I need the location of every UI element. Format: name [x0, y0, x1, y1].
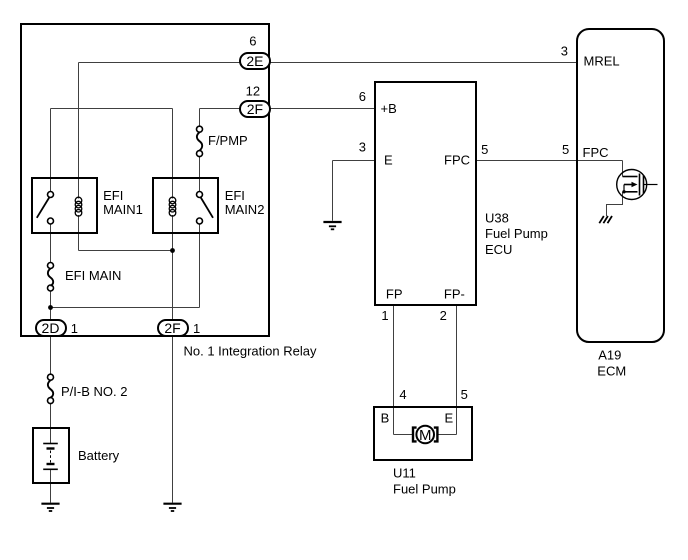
- svg-text:EFI: EFI: [225, 188, 245, 203]
- svg-text:2: 2: [440, 308, 447, 323]
- svg-text:3: 3: [561, 43, 568, 58]
- svg-text:6: 6: [359, 89, 366, 104]
- svg-text:+B: +B: [381, 101, 397, 116]
- svg-text:EFI: EFI: [103, 188, 123, 203]
- svg-text:4: 4: [399, 387, 406, 402]
- svg-text:FP-: FP-: [444, 286, 465, 301]
- svg-text:No. 1 Integration Relay: No. 1 Integration Relay: [184, 344, 317, 359]
- svg-text:B: B: [381, 410, 390, 425]
- svg-text:ECM: ECM: [597, 363, 626, 378]
- svg-text:12: 12: [246, 84, 260, 99]
- svg-text:Fuel Pump: Fuel Pump: [393, 481, 456, 496]
- svg-text:U11: U11: [393, 466, 416, 481]
- svg-text:5: 5: [461, 387, 468, 402]
- svg-text:3: 3: [359, 140, 366, 155]
- svg-text:M: M: [419, 427, 432, 444]
- svg-text:F/PMP: F/PMP: [208, 133, 248, 148]
- svg-text:MAIN2: MAIN2: [225, 202, 265, 217]
- svg-text:1: 1: [381, 308, 388, 323]
- svg-text:Fuel Pump: Fuel Pump: [485, 226, 548, 241]
- svg-text:1: 1: [71, 321, 78, 336]
- svg-text:2F: 2F: [164, 320, 180, 336]
- svg-text:5: 5: [562, 142, 569, 157]
- svg-text:1: 1: [193, 321, 200, 336]
- svg-text:FPC: FPC: [583, 145, 609, 160]
- svg-text:5: 5: [481, 142, 488, 157]
- svg-text:2E: 2E: [246, 53, 263, 69]
- svg-text:ECU: ECU: [485, 242, 512, 257]
- svg-text:E: E: [384, 152, 393, 167]
- svg-text:MAIN1: MAIN1: [103, 202, 143, 217]
- svg-text:Battery: Battery: [78, 448, 120, 463]
- svg-text:P/I-B NO. 2: P/I-B NO. 2: [61, 384, 127, 399]
- svg-text:2D: 2D: [42, 320, 60, 336]
- svg-text:A19: A19: [598, 348, 621, 363]
- svg-text:FPC: FPC: [444, 152, 470, 167]
- svg-text:2F: 2F: [247, 101, 263, 117]
- svg-text:FP: FP: [386, 286, 403, 301]
- svg-text:E: E: [445, 410, 454, 425]
- svg-text:6: 6: [249, 34, 256, 49]
- svg-text:U38: U38: [485, 210, 509, 225]
- svg-text:MREL: MREL: [584, 53, 620, 68]
- svg-text:EFI MAIN: EFI MAIN: [65, 268, 121, 283]
